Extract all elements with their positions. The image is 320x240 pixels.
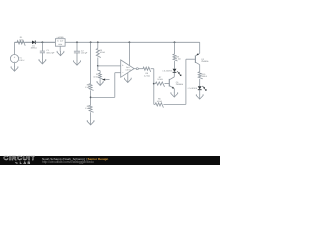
op-amp OA1 bbox=[121, 60, 134, 77]
ground under pot bbox=[99, 81, 101, 85]
wire op-amp V+ supply bbox=[129, 41, 131, 43]
wire U1 ground pin bbox=[59, 46, 61, 51]
svg-text:100 μF: 100 μF bbox=[81, 52, 88, 55]
wire top supply rail bbox=[15, 41, 200, 43]
svg-text:120 V: 120 V bbox=[19, 59, 25, 62]
ground under op-amp bbox=[127, 78, 129, 83]
svg-text:1 kΩ: 1 kΩ bbox=[176, 58, 181, 61]
op U1 voltage regulator 7805 bbox=[55, 39, 65, 47]
svg-text:10 kΩ: 10 kΩ bbox=[93, 75, 99, 78]
voltage source V1 bbox=[10, 55, 18, 63]
wire R3 node to op-amp non-inverting input bbox=[98, 65, 121, 67]
svg-text:LTL-307EE: LTL-307EE bbox=[188, 87, 198, 90]
resistor R6 to Q2 base bbox=[155, 103, 163, 108]
ground under LED2 bbox=[199, 94, 201, 99]
svg-text:10 kΩ: 10 kΩ bbox=[157, 100, 163, 103]
svg-text:1 kΩ: 1 kΩ bbox=[19, 39, 24, 42]
node divider tap bbox=[90, 97, 92, 99]
node junction rail-C1 bbox=[42, 41, 44, 43]
transistor Q1 bbox=[168, 79, 170, 87]
wire divider top bbox=[90, 42, 92, 83]
wire rail corner down to Q2 bbox=[199, 42, 201, 53]
svg-text:LTL-307EE: LTL-307EE bbox=[163, 70, 173, 73]
svg-text:10 kΩ: 10 kΩ bbox=[100, 51, 106, 54]
node junction rail-LED column bbox=[174, 41, 176, 43]
node junction R3-pot bbox=[97, 65, 99, 67]
node junction rail-divider bbox=[90, 41, 92, 43]
transistor Q2 bbox=[194, 55, 196, 63]
resistor R5 bbox=[89, 105, 94, 112]
node op-amp output bbox=[134, 68, 136, 70]
potentiometer R2 bbox=[99, 71, 101, 73]
wire V1 to rail bbox=[14, 42, 16, 54]
wire V1 to ground bbox=[14, 63, 16, 67]
svg-text:10 kΩ: 10 kΩ bbox=[157, 78, 163, 81]
resistor R8 LED1 bbox=[174, 42, 176, 54]
ground under divider bbox=[90, 120, 92, 125]
resistor R4 bbox=[89, 84, 94, 91]
ground under U1 bbox=[60, 51, 62, 56]
svg-text:1N914: 1N914 bbox=[31, 47, 38, 50]
resistor R5b output series bbox=[138, 68, 143, 70]
resistor R1 bbox=[15, 41, 18, 43]
wire node to pot bbox=[97, 66, 99, 71]
ground under C1 bbox=[41, 59, 43, 64]
diode D1 bbox=[32, 41, 35, 45]
svg-text:COM: COM bbox=[58, 43, 63, 46]
node junction rail-C2 bbox=[76, 41, 78, 43]
footer bar bbox=[0, 156, 220, 166]
svg-text:2N3904: 2N3904 bbox=[176, 83, 184, 86]
svg-text:OUT: OUT bbox=[60, 40, 64, 43]
svg-text:LM741: LM741 bbox=[126, 69, 132, 72]
LED D3 bbox=[198, 86, 202, 89]
wire divider tap to op-amp inverting input bbox=[91, 96, 115, 98]
ground under Q1 emitter bbox=[173, 92, 175, 97]
capacitor C1 bbox=[41, 42, 43, 51]
node junction rail-R3 bbox=[97, 41, 99, 43]
svg-text:2.2 kΩ: 2.2 kΩ bbox=[144, 74, 150, 77]
svg-text:LM7805: LM7805 bbox=[57, 36, 64, 39]
wire op-amp V- to ground bbox=[127, 73, 129, 78]
svg-text:560.3 pF: 560.3 pF bbox=[47, 52, 56, 55]
resistor R3 bbox=[97, 42, 99, 48]
ground under C2 bbox=[76, 61, 78, 66]
capacitor C2 bbox=[76, 42, 78, 51]
svg-text:1 kΩ: 1 kΩ bbox=[85, 86, 90, 89]
wire output column down bbox=[153, 69, 155, 105]
ground under V1 bbox=[14, 67, 16, 72]
wire R5 to ground bbox=[90, 112, 92, 120]
resistor R7 base Q1 bbox=[156, 82, 165, 87]
wire LED2 to ground bbox=[199, 90, 201, 95]
resistor R10 bbox=[198, 72, 203, 79]
node junction output column bbox=[153, 83, 155, 85]
svg-text:2N3906: 2N3906 bbox=[201, 60, 209, 63]
wire R4 to R5 bbox=[90, 90, 92, 105]
wire R6 up to Q2 base bbox=[185, 59, 187, 104]
svg-text:330 Ω: 330 Ω bbox=[202, 75, 208, 78]
LED D2 bbox=[173, 69, 177, 72]
svg-text:1 kΩ: 1 kΩ bbox=[85, 107, 90, 110]
